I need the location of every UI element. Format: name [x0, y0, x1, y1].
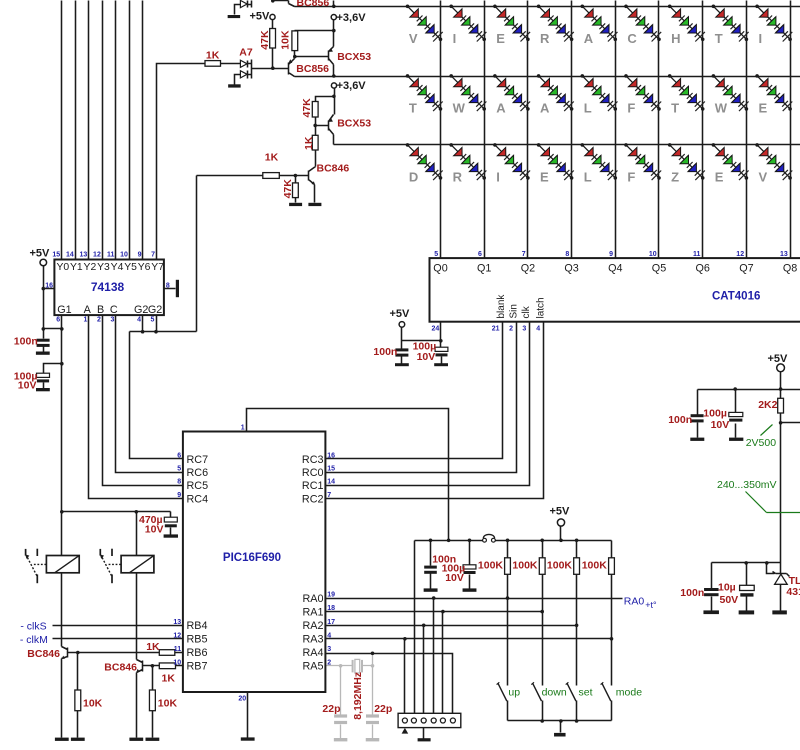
- svg-text:Y5: Y5: [124, 262, 137, 273]
- svg-text:50V: 50V: [720, 594, 739, 606]
- svg-text:RA1: RA1: [302, 606, 323, 618]
- svg-text:1: 1: [83, 317, 87, 324]
- svg-text:47K: 47K: [301, 98, 313, 118]
- svg-text:A: A: [84, 304, 92, 316]
- svg-text:RC2: RC2: [302, 493, 324, 505]
- svg-text:Q0: Q0: [433, 263, 447, 275]
- svg-text:V: V: [759, 169, 768, 184]
- svg-text:I: I: [453, 31, 457, 46]
- svg-text:100µ: 100µ: [703, 407, 727, 419]
- svg-text:3: 3: [110, 317, 114, 324]
- svg-text:E: E: [540, 169, 549, 184]
- svg-text:100K: 100K: [547, 560, 573, 572]
- svg-text:5: 5: [150, 317, 154, 324]
- svg-text:Q3: Q3: [564, 263, 578, 275]
- svg-text:7: 7: [522, 251, 526, 258]
- svg-text:RB6: RB6: [187, 647, 208, 659]
- svg-text:Y7: Y7: [151, 262, 164, 273]
- svg-text:1: 1: [241, 425, 245, 432]
- svg-text:74138: 74138: [91, 280, 125, 294]
- svg-text:down: down: [542, 686, 567, 698]
- svg-text:8: 8: [565, 251, 569, 258]
- svg-text:Q5: Q5: [652, 263, 666, 275]
- svg-text:RA0: RA0: [302, 593, 323, 605]
- svg-text:19: 19: [327, 592, 335, 599]
- svg-text:11: 11: [174, 646, 182, 653]
- svg-text:W: W: [715, 100, 728, 115]
- svg-text:22p: 22p: [374, 703, 392, 715]
- svg-text:Q7: Q7: [739, 263, 753, 275]
- svg-text:BC846: BC846: [27, 648, 60, 660]
- svg-text:100n: 100n: [668, 414, 692, 426]
- svg-text:1K: 1K: [162, 672, 176, 684]
- svg-text:14: 14: [327, 479, 335, 486]
- svg-text:1K: 1K: [146, 641, 160, 653]
- svg-text:Q2: Q2: [521, 263, 535, 275]
- svg-text:16: 16: [327, 453, 335, 460]
- svg-text:T: T: [715, 31, 723, 46]
- svg-text:431: 431: [786, 586, 800, 598]
- svg-text:RC6: RC6: [187, 467, 209, 479]
- svg-text:Y0: Y0: [56, 262, 69, 273]
- svg-text:RC0: RC0: [302, 467, 324, 479]
- svg-text:V: V: [409, 31, 418, 46]
- svg-text:- clkM: - clkM: [20, 634, 48, 646]
- svg-text:L: L: [584, 100, 592, 115]
- svg-text:RA4: RA4: [302, 647, 323, 659]
- svg-text:6: 6: [56, 317, 60, 324]
- svg-text:RA2: RA2: [302, 620, 323, 632]
- svg-text:latch: latch: [536, 297, 547, 318]
- svg-text:set: set: [579, 686, 593, 698]
- svg-text:Q8: Q8: [783, 263, 797, 275]
- svg-text:BCX53: BCX53: [337, 118, 371, 130]
- svg-text:CAT4016: CAT4016: [712, 291, 760, 303]
- svg-text:4: 4: [536, 325, 540, 332]
- svg-text:10µ: 10µ: [718, 581, 736, 593]
- svg-text:11: 11: [693, 251, 701, 258]
- svg-text:1K: 1K: [206, 50, 220, 62]
- svg-text:BC846: BC846: [104, 661, 137, 673]
- svg-text:I: I: [759, 31, 763, 46]
- svg-text:2K2: 2K2: [758, 399, 777, 411]
- svg-text:up: up: [508, 686, 520, 698]
- svg-text:4: 4: [327, 632, 331, 639]
- svg-text:14: 14: [66, 252, 74, 259]
- svg-text:47K: 47K: [259, 30, 271, 50]
- svg-text:G1: G1: [57, 304, 71, 316]
- svg-text:10K: 10K: [158, 698, 178, 710]
- svg-text:Sin: Sin: [508, 304, 519, 318]
- svg-text:13: 13: [173, 619, 181, 626]
- svg-text:10V: 10V: [445, 572, 464, 584]
- svg-text:E: E: [496, 31, 505, 46]
- svg-text:2: 2: [509, 325, 513, 332]
- svg-text:B: B: [97, 304, 104, 316]
- svg-text:10K: 10K: [83, 698, 103, 710]
- svg-text:17: 17: [327, 619, 335, 626]
- svg-text:RA0: RA0: [624, 596, 645, 608]
- svg-text:+5V: +5V: [390, 308, 411, 320]
- svg-text:E: E: [715, 169, 724, 184]
- svg-text:RC5: RC5: [187, 480, 209, 492]
- svg-text:R: R: [453, 169, 463, 184]
- svg-text:8: 8: [166, 283, 170, 290]
- svg-text:mode: mode: [616, 686, 642, 698]
- svg-text:Y2: Y2: [84, 262, 97, 273]
- svg-text:RC4: RC4: [187, 493, 209, 505]
- svg-text:15: 15: [327, 466, 335, 473]
- svg-text:+5V: +5V: [250, 11, 271, 23]
- svg-text:RC1: RC1: [302, 480, 324, 492]
- svg-text:clk: clk: [521, 305, 532, 318]
- svg-text:12: 12: [93, 252, 101, 259]
- svg-text:T: T: [409, 100, 417, 115]
- svg-text:6: 6: [478, 251, 482, 258]
- svg-text:A: A: [540, 100, 550, 115]
- svg-text:1K: 1K: [265, 151, 279, 163]
- svg-text:5: 5: [434, 251, 438, 258]
- svg-text:Y6: Y6: [138, 262, 151, 273]
- svg-text:8: 8: [177, 479, 181, 486]
- svg-text:9: 9: [609, 251, 613, 258]
- svg-text:+3,6V: +3,6V: [337, 12, 367, 24]
- svg-text:12: 12: [173, 632, 181, 639]
- svg-text:RC7: RC7: [187, 454, 209, 466]
- svg-text:10V: 10V: [711, 419, 730, 431]
- svg-text:A7: A7: [239, 47, 253, 59]
- svg-text:BC856: BC856: [296, 63, 329, 75]
- svg-text:R: R: [540, 31, 550, 46]
- svg-text:Z: Z: [671, 169, 679, 184]
- svg-text:L: L: [584, 169, 592, 184]
- svg-text:13: 13: [780, 251, 788, 258]
- svg-text:RB4: RB4: [187, 620, 208, 632]
- svg-text:A: A: [584, 31, 594, 46]
- svg-text:10: 10: [649, 251, 657, 258]
- svg-text:100K: 100K: [582, 560, 608, 572]
- svg-text:- clkS: - clkS: [20, 621, 46, 633]
- svg-text:BCX53: BCX53: [337, 51, 371, 63]
- svg-text:100n: 100n: [14, 336, 38, 348]
- svg-text:A: A: [496, 100, 506, 115]
- svg-text:8,192MHz: 8,192MHz: [352, 672, 364, 720]
- svg-text:+5V: +5V: [550, 506, 571, 518]
- svg-text:F: F: [627, 100, 635, 115]
- svg-text:10V: 10V: [18, 379, 37, 391]
- svg-text:10V: 10V: [145, 523, 164, 535]
- svg-text:10V: 10V: [417, 351, 436, 363]
- svg-text:100n: 100n: [373, 346, 397, 358]
- svg-text:100K: 100K: [512, 560, 538, 572]
- svg-text:6: 6: [177, 453, 181, 460]
- svg-text:13: 13: [80, 252, 88, 259]
- svg-text:3: 3: [522, 325, 526, 332]
- svg-text:18: 18: [327, 605, 335, 612]
- svg-text:10: 10: [173, 659, 181, 666]
- svg-text:47K: 47K: [282, 179, 294, 199]
- svg-text:100n: 100n: [680, 587, 704, 599]
- svg-text:+t°: +t°: [645, 600, 657, 610]
- svg-text:Q4: Q4: [608, 263, 622, 275]
- svg-text:F: F: [627, 169, 635, 184]
- svg-text:PIC16F690: PIC16F690: [223, 552, 281, 564]
- svg-text:W: W: [453, 100, 466, 115]
- svg-text:24: 24: [432, 325, 440, 332]
- svg-text:11: 11: [107, 252, 115, 259]
- svg-text:Y1: Y1: [70, 262, 83, 273]
- svg-text:G2: G2: [148, 304, 162, 316]
- svg-text:1K: 1K: [303, 136, 315, 150]
- svg-text:C: C: [110, 304, 118, 316]
- svg-text:5: 5: [177, 466, 181, 473]
- svg-text:21: 21: [492, 325, 500, 332]
- svg-text:I: I: [496, 169, 500, 184]
- svg-text:7: 7: [151, 252, 155, 259]
- svg-text:Y3: Y3: [97, 262, 110, 273]
- svg-text:RC3: RC3: [302, 454, 324, 466]
- svg-text:BC856: BC856: [297, 0, 330, 9]
- svg-text:Q6: Q6: [695, 263, 709, 275]
- svg-text:15: 15: [52, 252, 60, 259]
- svg-text:+5V: +5V: [30, 248, 51, 260]
- svg-text:3: 3: [327, 646, 331, 653]
- svg-text:RA3: RA3: [302, 633, 323, 645]
- svg-text:+5V: +5V: [768, 353, 789, 365]
- svg-text:RA5: RA5: [302, 660, 323, 672]
- svg-text:RB7: RB7: [187, 660, 208, 672]
- svg-text:T: T: [671, 100, 679, 115]
- svg-text:blank: blank: [496, 294, 507, 319]
- svg-text:Q1: Q1: [477, 263, 491, 275]
- svg-text:D: D: [409, 169, 418, 184]
- svg-text:Y4: Y4: [111, 262, 124, 273]
- svg-text:4: 4: [137, 317, 141, 324]
- svg-text:+3,6V: +3,6V: [337, 80, 367, 92]
- svg-text:100K: 100K: [478, 560, 504, 572]
- svg-text:10: 10: [120, 252, 128, 259]
- svg-text:G2: G2: [134, 304, 148, 316]
- svg-text:RB5: RB5: [187, 633, 208, 645]
- svg-text:12: 12: [736, 251, 744, 258]
- svg-text:H: H: [671, 31, 680, 46]
- svg-text:9: 9: [138, 252, 142, 259]
- svg-text:2V500: 2V500: [746, 437, 777, 449]
- svg-text:20: 20: [238, 696, 246, 703]
- svg-text:9: 9: [177, 492, 181, 499]
- svg-text:22p: 22p: [322, 703, 340, 715]
- svg-text:E: E: [759, 100, 768, 115]
- svg-text:7: 7: [327, 492, 331, 499]
- svg-text:2: 2: [97, 317, 101, 324]
- svg-text:BC846: BC846: [317, 162, 350, 174]
- svg-text:240...350mV: 240...350mV: [717, 479, 777, 491]
- svg-text:2: 2: [327, 659, 331, 666]
- svg-text:10K: 10K: [279, 30, 291, 50]
- svg-text:C: C: [627, 31, 637, 46]
- svg-text:16: 16: [45, 283, 53, 290]
